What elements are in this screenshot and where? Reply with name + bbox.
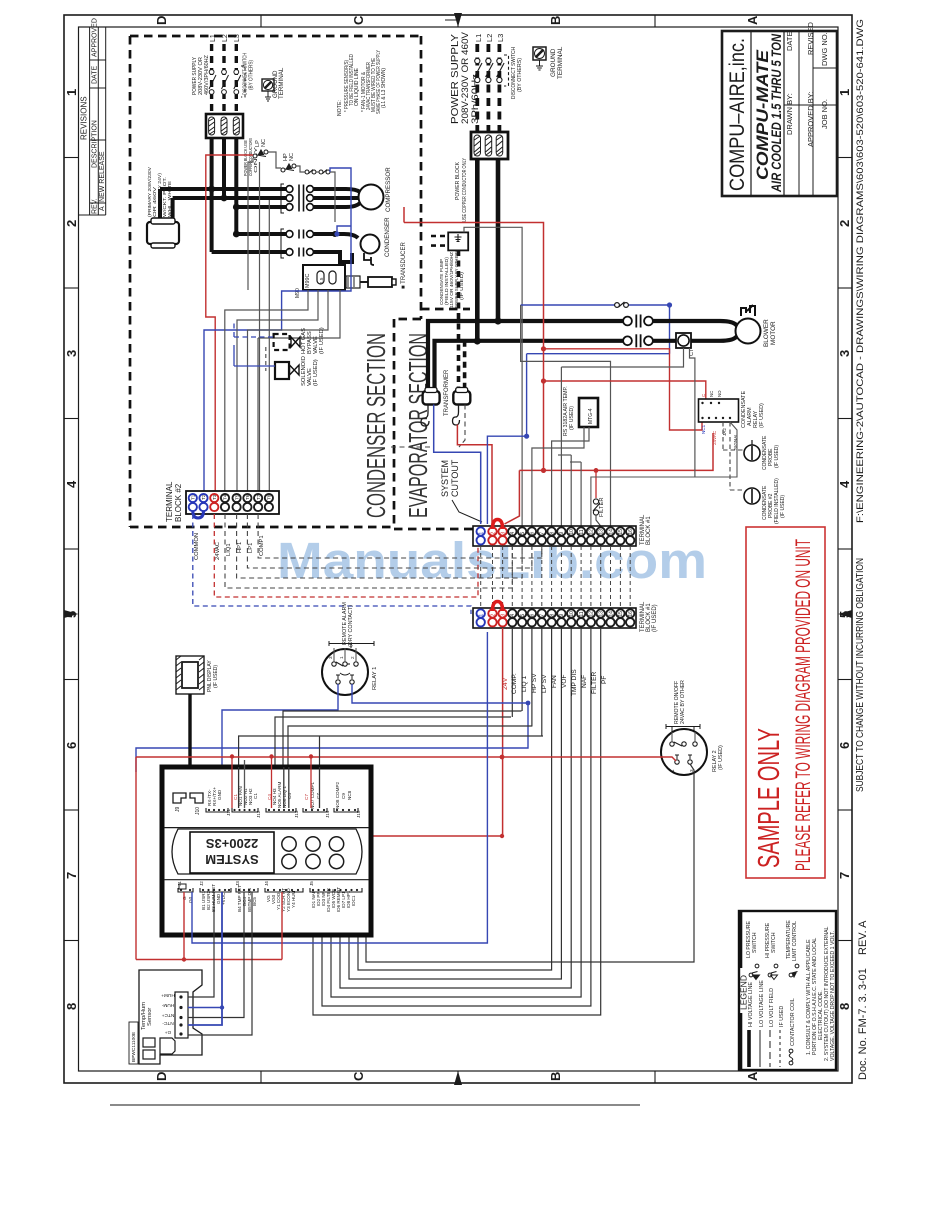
condensate relay label — [741, 391, 765, 428]
svg-text:4: 4 — [837, 480, 852, 488]
svg-text:BC5: BC5 — [252, 897, 257, 906]
svg-text:(IF USED): (IF USED) — [718, 745, 724, 770]
svg-text:3: 3 — [328, 656, 333, 659]
svg-text:NC: NC — [261, 139, 267, 147]
blue dot relay1 — [526, 701, 531, 706]
terminal block 2 body — [186, 491, 279, 514]
red feed to condensate relay row — [544, 349, 703, 430]
bottom separator rule — [110, 1104, 640, 1106]
svg-text:HUM-: HUM- — [161, 1002, 174, 1008]
condenser power block — [206, 114, 243, 138]
svg-text:ONLY: ONLY — [253, 147, 258, 173]
svg-text:1: 1 — [837, 89, 852, 96]
svg-text:CONDENSER: CONDENSER — [384, 217, 391, 257]
CT wire down — [690, 348, 695, 477]
evaporator L1 L2 L3 labels — [474, 34, 505, 42]
svg-text:SYSTEM: SYSTEM — [205, 852, 258, 867]
svg-text:24VAC: 24VAC — [215, 542, 221, 560]
svg-text:(IF USED): (IF USED) — [774, 445, 780, 468]
svg-text:11: 11 — [579, 611, 585, 616]
wires from M box to terminal block 2 — [225, 290, 340, 491]
blower motor thermal mark — [741, 305, 755, 316]
terminal block 2 label — [165, 481, 183, 522]
remote alarm bracket — [329, 641, 374, 648]
drawing frame outer border — [64, 15, 852, 1083]
CT current transformer — [676, 333, 695, 356]
svg-text:13: 13 — [599, 611, 605, 617]
svg-text:PLEASE REFER TO WIRING DIAGRAM: PLEASE REFER TO WIRING DIAGRAM PROVIDED … — [791, 539, 815, 871]
svg-text:LIQ1: LIQ1 — [226, 543, 232, 556]
svg-text:16: 16 — [628, 611, 634, 617]
condenser power supply L1 L2 L3 dashed leads — [212, 44, 237, 114]
svg-text:BLOWER: BLOWER — [763, 319, 770, 347]
svg-text:APPROVED BY:: APPROVED BY: — [806, 92, 815, 147]
RS 3182A air temp sensor box — [579, 398, 598, 427]
svg-text:LIQ 1: LIQ 1 — [521, 676, 528, 692]
svg-text:LP SV: LP SV — [541, 674, 548, 693]
controller top entry wires — [232, 756, 320, 808]
svg-text:NEW RELEASE: NEW RELEASE — [99, 151, 106, 202]
svg-text:15: 15 — [618, 529, 624, 535]
svg-text:DATE: DATE — [785, 32, 794, 51]
relay board gray signal wire — [591, 422, 737, 526]
controller box — [162, 767, 371, 935]
evaporator ground terminal — [533, 47, 546, 70]
svg-text:Doc. No. FM-7. 3. 3-01: Doc. No. FM-7. 3. 3-01 — [857, 968, 869, 1080]
main feed L3 vertical — [496, 159, 501, 321]
condensate pump box — [431, 232, 468, 250]
zone tick marks — [64, 15, 852, 1083]
svg-text:(DRY CONTACT): (DRY CONTACT) — [348, 605, 354, 647]
red drop into tb1 t3 — [505, 470, 520, 524]
blue junction dots — [667, 302, 672, 307]
controller J15 pin group — [334, 781, 361, 818]
controller J2 group — [199, 881, 231, 912]
svg-text:6: 6 — [530, 532, 536, 535]
svg-text:VOF: VOF — [561, 674, 568, 688]
controller J9 J10 tabs — [173, 793, 203, 803]
panel display connector — [176, 656, 204, 694]
svg-text:CONTACTOR COIL: CONTACTOR COIL — [790, 998, 796, 1046]
svg-text:G+: G+ — [165, 1029, 172, 1035]
svg-text:REVISED: REVISED — [806, 21, 815, 55]
svg-text:TMP DIS: TMP DIS — [571, 669, 578, 696]
edge center arrows — [64, 13, 852, 1085]
svg-text:FILTER: FILTER — [599, 497, 605, 517]
controller J11 pin group — [206, 787, 231, 816]
legend box — [739, 911, 836, 1070]
condenser fan feed lines — [314, 234, 358, 262]
svg-text:14: 14 — [608, 529, 614, 535]
controller display window — [190, 832, 274, 873]
svg-text:LEGEND: LEGEND — [739, 975, 749, 1010]
svg-text:1: 1 — [64, 89, 79, 96]
svg-text:NOTE:: NOTE: — [337, 100, 343, 116]
svg-text:1.5: 1.5 — [319, 277, 324, 284]
tb1 column wire naf — [331, 628, 581, 997]
svg-text:Sensor: Sensor — [147, 1008, 153, 1026]
svg-text:IDC1: IDC1 — [351, 895, 356, 906]
CT wire left — [561, 348, 683, 367]
hot gas bypass valve — [274, 334, 290, 350]
svg-text:C9: C9 — [341, 793, 346, 799]
svg-text:M99C: M99C — [305, 274, 311, 288]
remote on-off bracket — [666, 724, 700, 732]
svg-text:13: 13 — [599, 529, 605, 535]
svg-text:DRAWN BY:: DRAWN BY: — [785, 93, 794, 135]
svg-text:COMPRESSOR: COMPRESSOR — [385, 167, 392, 212]
legend title bars — [739, 911, 743, 1070]
svg-text:C7: C7 — [316, 793, 321, 799]
svg-text:T4: T4 — [223, 494, 228, 500]
svg-text:SWITCH: SWITCH — [752, 932, 758, 953]
control wiring gray — [248, 152, 335, 491]
condenser power supply label — [192, 54, 210, 95]
svg-text:2: 2 — [490, 614, 496, 617]
hot gas bypass valve label — [301, 327, 325, 354]
svg-text:SUBJECT TO CHANGE WITHOUT INCU: SUBJECT TO CHANGE WITHOUT INCURRING OBLI… — [854, 558, 866, 792]
relay board bottom labels — [701, 424, 738, 450]
legend hi voltage line sample — [747, 1030, 751, 1067]
svg-text:4: 4 — [510, 614, 516, 617]
svg-text:(BY OTHERS): (BY OTHERS) — [517, 58, 523, 92]
svg-text:J12: J12 — [256, 810, 261, 818]
svg-text:3: 3 — [837, 350, 852, 357]
relay 1 — [322, 649, 368, 695]
harness gray h1 — [275, 717, 511, 767]
terminal block 2 terminals — [189, 494, 273, 511]
svg-text:CUTOUT: CUTOUT — [450, 459, 460, 497]
remote on-off label — [674, 680, 686, 724]
harness red loop left — [136, 757, 502, 960]
relay2 red feed — [502, 757, 676, 761]
main feed L1 vertical — [475, 159, 480, 341]
svg-text:L1: L1 — [474, 34, 483, 42]
red horizontal 24v to probes row — [519, 433, 713, 470]
harness gray drop to controller j14 — [319, 736, 321, 767]
svg-text:LO VOLT FIELD: LO VOLT FIELD — [769, 988, 775, 1027]
svg-text:■ TRANSDUCER: ■ TRANSDUCER — [401, 241, 407, 289]
svg-text:(IF USED): (IF USED) — [459, 271, 465, 300]
condenser blue control wires — [204, 168, 351, 491]
svg-text:NTC+: NTC+ — [161, 1012, 174, 1018]
svg-text:3: 3 — [64, 350, 79, 357]
svg-text:12: 12 — [589, 529, 595, 535]
svg-text:APPROVED: APPROVED — [92, 18, 99, 57]
transformer 2 — [453, 388, 470, 405]
legend note 1 — [806, 938, 824, 1055]
tb2 control drop lp1 — [247, 514, 532, 568]
svg-text:T7: T7 — [256, 494, 261, 500]
controller J3 group — [235, 881, 258, 912]
evaporator disconnect switch — [475, 55, 509, 86]
svg-text:DATE: DATE — [92, 66, 99, 84]
svg-text:A: A — [745, 15, 760, 25]
condenser fan contactor contacts — [281, 229, 313, 258]
condenser junction dot L1 row — [332, 231, 338, 237]
zone numbers right 1-8 — [837, 89, 852, 1010]
M protector box — [295, 265, 345, 298]
svg-text:11: 11 — [579, 529, 585, 534]
legend temperature limit control — [786, 920, 798, 961]
svg-text:FILTER: FILTER — [591, 672, 598, 694]
blue aux wire from blower aux contact — [487, 305, 669, 524]
svg-text:D: D — [154, 1072, 169, 1081]
svg-text:USE COPPER CONDUCTOR ONLY: USE COPPER CONDUCTOR ONLY — [462, 158, 468, 222]
optional 24v transformer label — [147, 166, 173, 217]
svg-text:5: 5 — [520, 614, 526, 617]
svg-text:NC1: NC1 — [701, 424, 706, 434]
sensor ntc+ wire to J3 — [188, 892, 244, 1018]
tb2 control drop 24vac — [214, 514, 478, 597]
svg-text:POWER BLOCK: POWER BLOCK — [455, 162, 461, 200]
legend lo pressure switch — [746, 921, 758, 958]
svg-text:9: 9 — [559, 532, 565, 535]
relay2 bracket wires — [672, 732, 695, 742]
svg-text:T1: T1 — [191, 494, 196, 500]
phase junction dots — [208, 186, 240, 238]
sensor pin header — [175, 992, 188, 1038]
evaporator disconnect label — [511, 47, 523, 99]
condenser section dashed enclosure — [130, 36, 421, 527]
legend note 2 — [824, 926, 836, 1061]
tb2 control drop common — [193, 514, 471, 614]
sensor bottom details — [143, 1038, 175, 1059]
blower feed line 2 — [435, 341, 625, 391]
svg-text:C: C — [701, 394, 706, 397]
relay2 remote wire to controller — [366, 764, 694, 962]
svg-text:A: A — [99, 206, 106, 211]
svg-text:DESCRIPTION: DESCRIPTION — [92, 120, 99, 168]
sample only box — [746, 527, 825, 878]
svg-text:J13: J13 — [294, 810, 299, 818]
svg-text:2: 2 — [350, 656, 355, 659]
compressor motor — [359, 185, 384, 210]
compressor feed lines — [314, 189, 360, 207]
sensor part number box — [129, 1022, 138, 1064]
condensate probe 1 — [744, 440, 760, 461]
svg-text:J9: J9 — [175, 807, 181, 813]
controller display text — [205, 836, 258, 867]
solenoid valve label — [301, 356, 319, 386]
controller J5 group — [309, 881, 362, 912]
controller J4 group — [264, 881, 303, 912]
svg-text:8: 8 — [837, 1003, 852, 1010]
terminal block 1 row 1 label — [640, 514, 652, 545]
tb2 control drop liq1 — [225, 514, 512, 588]
svg-text:T3: T3 — [212, 494, 217, 500]
svg-text:6: 6 — [837, 742, 852, 749]
svg-text:2: 2 — [837, 220, 852, 227]
transformer secondary dashed link — [391, 405, 465, 448]
condensate relay board — [699, 390, 739, 422]
blower motor label — [763, 319, 777, 347]
svg-text:8: 8 — [549, 532, 555, 535]
svg-text:J15: J15 — [356, 810, 361, 818]
svg-text:8: 8 — [64, 1003, 79, 1010]
system cutout label — [440, 459, 460, 497]
svg-text:4: 4 — [64, 480, 79, 488]
air temp sensor label — [563, 386, 575, 436]
svg-text:REVISIONS: REVISIONS — [80, 96, 89, 140]
svg-text:MOTOR: MOTOR — [770, 321, 777, 345]
svg-text:24V: 24V — [502, 677, 509, 690]
controller J14 pin group — [303, 781, 330, 818]
svg-text:NC: NC — [709, 391, 714, 397]
harness gray h2 — [283, 711, 522, 767]
svg-text:T8: T8 — [267, 494, 272, 500]
condenser L1 L2 L3 labels — [210, 34, 241, 42]
svg-text:T2: T2 — [201, 494, 206, 500]
svg-text:TERMINAL: TERMINAL — [557, 46, 564, 79]
blue dot sensor junction — [220, 1005, 224, 1009]
tb2 drop labels — [194, 533, 265, 560]
svg-text:D: D — [154, 16, 169, 25]
svg-text:HUM+: HUM+ — [161, 992, 175, 998]
svg-text:COMP.: COMP. — [511, 673, 518, 694]
svg-text:L3: L3 — [496, 34, 505, 42]
tb1 column wire comp — [511, 628, 513, 717]
terminal block 2 jumper T1-T2 — [193, 511, 204, 518]
air temp sensor wires — [532, 427, 584, 526]
svg-text:C4: C4 — [287, 793, 292, 799]
svg-text:ON LIQUID LINE: ON LIQUID LINE — [354, 67, 360, 106]
svg-text:LO VOLTAGE LINE: LO VOLTAGE LINE — [759, 980, 765, 1027]
condenser fan blade mark — [364, 253, 374, 265]
harness gray h4 — [239, 736, 543, 767]
svg-text:RELAY 1: RELAY 1 — [372, 667, 378, 690]
gray vertical wires into tb1 — [558, 367, 581, 526]
svg-text:L3: L3 — [234, 34, 241, 42]
zone letters top D C B A — [154, 15, 760, 25]
svg-text:15: 15 — [618, 611, 624, 617]
harness gray h3 — [288, 726, 532, 767]
svg-text:COMP1: COMP1 — [259, 535, 265, 556]
tb1 column wire pf — [313, 628, 601, 1015]
svg-text:NO8 COMP2: NO8 COMP2 — [335, 781, 340, 809]
svg-text:(IF USED): (IF USED) — [569, 406, 575, 430]
transformer1 secondary curl — [421, 405, 429, 427]
svg-text:NO: NO — [717, 390, 722, 397]
blower motor leads — [653, 321, 737, 341]
svg-text:L2: L2 — [485, 34, 494, 42]
svg-text:REV. A: REV. A — [857, 920, 869, 955]
legend lo volt field sample — [769, 1030, 771, 1067]
svg-text:L2: L2 — [222, 34, 229, 42]
evaporator section dashed boundary — [394, 309, 560, 529]
svg-text:PF: PF — [601, 676, 608, 684]
terminal block 1 row 2 label — [640, 601, 658, 632]
svg-text:J11: J11 — [226, 808, 231, 816]
svg-text:24VAC BY OTHER: 24VAC BY OTHER — [680, 680, 686, 724]
relay 2 label — [712, 745, 724, 772]
title block small fields — [785, 21, 829, 147]
blower feed line 1 — [428, 321, 624, 391]
legend contactor coil symbol — [789, 1049, 793, 1065]
legend if used sample — [779, 1030, 781, 1067]
svg-text:TERMINAL: TERMINAL — [165, 481, 174, 522]
condensate probe 1 label — [762, 435, 780, 470]
svg-text:14: 14 — [608, 611, 614, 617]
red dots harness — [182, 834, 504, 962]
controller J12 pin group — [232, 786, 261, 818]
tb1 column wire tmpdis — [340, 628, 571, 988]
controller band dividers — [164, 827, 369, 829]
svg-text:SYSTEM: SYSTEM — [440, 460, 450, 497]
svg-text:M90: M90 — [295, 288, 301, 298]
control wire red condenser 24v — [206, 155, 253, 491]
svg-text:JOB NO.: JOB NO. — [820, 99, 829, 129]
svg-text:(L1 & L3 SHOWN): (L1 & L3 SHOWN) — [381, 68, 387, 108]
red junction dots — [541, 346, 546, 473]
terminal block 1 row 1 — [473, 526, 636, 546]
svg-text:A: A — [745, 1071, 760, 1081]
svg-text:T5: T5 — [234, 494, 239, 500]
tb1 column wire filter — [322, 628, 591, 1006]
svg-text:3: 3 — [500, 614, 506, 617]
blue secondary t1 to tb1 — [434, 405, 481, 525]
svg-text:IF USED: IF USED — [779, 1006, 785, 1027]
condenser power block label — [243, 138, 258, 176]
note text block — [337, 49, 387, 116]
svg-text:BPWC11100E: BPWC11100E — [131, 1032, 137, 1062]
panel display label — [207, 660, 219, 692]
probe dashed links — [723, 422, 744, 490]
tb1 column wire fan — [358, 628, 552, 970]
transducer — [346, 276, 396, 288]
svg-text:6: 6 — [64, 742, 79, 749]
svg-text:REV.: REV. — [92, 198, 99, 214]
svg-text:24VAC: 24VAC — [712, 430, 717, 445]
evaporator ground terminal label — [550, 46, 564, 79]
controller buttons — [282, 837, 344, 869]
relay1 blue wires — [136, 684, 528, 772]
title block — [722, 31, 837, 196]
terminal block 2 numbers — [191, 494, 272, 500]
svg-text:DWG NO.: DWG NO. — [820, 32, 829, 66]
relay1 pin wires up — [334, 648, 356, 662]
svg-text:9: 9 — [559, 614, 565, 617]
svg-text:NTC-: NTC- — [162, 1020, 174, 1026]
svg-text:COMPU–AIRE,inc.: COMPU–AIRE,inc. — [726, 38, 749, 191]
sensor g+ wire to J3 — [188, 892, 252, 1035]
relay 2 — [661, 729, 707, 775]
svg-text:C: C — [351, 1071, 366, 1081]
svg-text:J1: J1 — [177, 881, 182, 886]
blue junction dot — [334, 231, 339, 236]
svg-text:LP1: LP1 — [248, 543, 254, 553]
legend lo voltage line sample — [759, 1030, 761, 1067]
feed junction dots — [494, 317, 501, 324]
transformer2 dashed feeds — [459, 250, 465, 392]
aux interlock contacts — [305, 170, 330, 175]
svg-text:SAMPLE ONLY: SAMPLE ONLY — [751, 728, 786, 868]
svg-text:HI VOLTAGE LINE: HI VOLTAGE LINE — [748, 982, 754, 1027]
tb2 control drop comp1 — [258, 514, 542, 558]
zone numbers left 1-8 — [64, 89, 79, 1010]
sensor label — [141, 1002, 153, 1030]
24v red bus below tb1 — [502, 628, 504, 836]
HP pressure switch — [281, 164, 296, 172]
evaporator power supply label — [449, 31, 481, 124]
pump gray wire — [464, 227, 522, 526]
svg-text:C7: C7 — [304, 794, 309, 800]
svg-text:CONDENSER SECTION: CONDENSER SECTION — [361, 333, 391, 518]
gray wire aux to tb1 — [521, 305, 611, 526]
svg-text:BLOCK #2: BLOCK #2 — [174, 483, 183, 522]
svg-text:VOLTAGE. VOLTAGE DROP NOT TO E: VOLTAGE. VOLTAGE DROP NOT TO EXCEED 1 VO… — [830, 931, 836, 1061]
svg-text:7: 7 — [837, 872, 852, 879]
